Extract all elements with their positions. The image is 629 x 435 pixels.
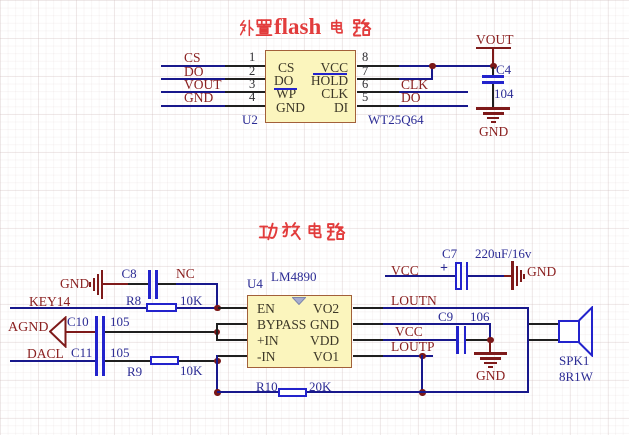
wire C10 to chip <box>105 331 217 333</box>
U4 pin name VO1 <box>290 350 339 364</box>
VCC active-low underline <box>313 73 347 75</box>
pin 8 lead <box>357 65 400 67</box>
net label LOUTP <box>391 340 435 354</box>
net label DO <box>184 65 204 79</box>
pin number 5 <box>362 91 368 104</box>
wire pin8 to VOUT <box>399 65 494 67</box>
net label VCC <box>395 325 423 339</box>
U4 pin name -IN <box>257 350 275 364</box>
net label GND <box>184 91 213 105</box>
C10 value 105 <box>110 315 130 328</box>
wire VOUT net <box>161 91 225 93</box>
capacitor C9 <box>456 326 459 354</box>
AGND triangle <box>49 316 67 348</box>
C10 designator <box>67 315 89 328</box>
net label CLK <box>401 78 428 92</box>
title1 外置flash电路 <box>237 17 239 19</box>
ground symbol (C9) <box>474 352 507 355</box>
GND label (C7) <box>527 265 556 279</box>
AGND lead <box>65 331 95 333</box>
pin number 4 <box>249 91 255 104</box>
VDD pin lead <box>353 339 383 341</box>
R8 value 10K <box>180 294 202 307</box>
title2 功放电路 <box>257 221 259 223</box>
capacitor C10 <box>95 316 98 347</box>
capacitor C7 (polarized) <box>455 262 462 290</box>
net label NC <box>176 267 195 281</box>
R9 value 10K <box>180 364 202 377</box>
wire DO net <box>161 78 225 80</box>
pin number 6 <box>362 78 368 91</box>
pin 4 lead <box>225 105 265 107</box>
speaker bottom wire <box>529 339 558 342</box>
IC U4 body <box>247 295 352 368</box>
pin number 7 <box>362 65 368 78</box>
GND pin lead <box>353 323 383 325</box>
resistor R10 <box>278 388 307 397</box>
U4 notch <box>292 297 306 305</box>
power ground bars (left of C8) <box>89 282 91 287</box>
wire C11 to R9 <box>105 360 151 362</box>
pin 3 lead <box>225 91 265 93</box>
power port VCC (C7 row) <box>391 264 419 278</box>
junction feedback corner <box>214 389 221 396</box>
EN pin lead <box>218 307 247 309</box>
U2 pin name CLK <box>290 87 348 101</box>
R9 designator <box>127 365 142 378</box>
pin number 3 <box>249 78 255 91</box>
C8 designator <box>122 267 137 280</box>
IC U2 body <box>265 50 356 123</box>
pin 2 lead <box>225 78 265 80</box>
U4 pin name +IN <box>257 334 279 348</box>
wire C7 to GND <box>468 275 504 277</box>
speaker SPK1 body <box>558 320 580 343</box>
power ground lead <box>504 275 512 277</box>
net label CS <box>184 51 201 65</box>
U4 pin name VDD <box>290 334 339 348</box>
resistor R8 <box>146 303 177 312</box>
junction EN/NC <box>214 305 221 312</box>
wire CS net <box>161 65 225 67</box>
C7 plus sign <box>440 262 448 275</box>
C4 value 104 <box>494 87 514 100</box>
junction pin7/pin8 <box>429 63 436 70</box>
U2 pin name GND <box>276 101 305 115</box>
junction C9/GND <box>487 337 494 344</box>
designator U2 <box>242 113 258 126</box>
ground symbol (top) <box>476 107 510 110</box>
wire VCC net (VDD) <box>383 339 456 341</box>
power ground bars (right of C7) <box>511 261 514 290</box>
speaker top wire <box>529 323 558 326</box>
SPK1 value 8R1W <box>559 370 593 383</box>
wire VCC to C7 <box>385 275 455 277</box>
wire right riser <box>527 307 529 394</box>
wire R9 to -IN <box>179 360 217 362</box>
BYPASS/+IN tie vertical <box>216 323 218 341</box>
junction C10/BYPASS <box>214 329 221 336</box>
resistor R9 <box>150 356 179 365</box>
value WT25Q64 <box>368 113 424 126</box>
wire pin7 riser <box>431 65 433 80</box>
junction VOUT/C4 <box>490 63 497 70</box>
capacitor C4 <box>482 75 504 78</box>
-IN feedback vertical <box>216 355 218 394</box>
net label LOUTN <box>391 294 437 308</box>
-IN pin lead <box>218 355 247 357</box>
VO2 pin lead <box>353 307 383 309</box>
speaker horn <box>578 306 595 357</box>
capacitor C7 designator <box>442 247 457 260</box>
U4 pin name BYPASS <box>257 318 306 332</box>
capacitor C8 <box>148 270 151 299</box>
SPK1 designator <box>559 354 589 367</box>
C8 right lead <box>158 283 176 285</box>
R8 designator <box>126 294 141 307</box>
U4 pin name GND <box>290 318 339 332</box>
wire DACL <box>10 360 95 362</box>
wire DO net (pin5) <box>399 105 468 107</box>
power port AGND label <box>8 321 48 335</box>
power port VOUT <box>476 33 514 47</box>
capacitor C11 <box>95 346 98 376</box>
pin 5 lead <box>357 105 400 107</box>
VO1 pin lead <box>353 355 383 357</box>
net label KEY14 <box>29 295 70 309</box>
GND label (top) <box>479 125 508 139</box>
wire R8 to EN <box>177 307 217 309</box>
net label DO (pin5) <box>401 91 421 105</box>
U2 pin name DI <box>290 101 348 115</box>
wire NC <box>176 283 218 285</box>
wire LOUTP <box>383 355 433 357</box>
net label VOUT <box>184 78 222 92</box>
+IN pin lead <box>218 339 247 341</box>
R10 value 20K <box>309 380 331 393</box>
LOUTP drop <box>421 355 423 394</box>
capacitor C4 top lead <box>492 67 494 75</box>
wire GND drop <box>489 323 491 340</box>
U2 pin name WP <box>276 87 296 101</box>
U4 pin name VO2 <box>290 302 339 316</box>
U2 pin name VCC <box>290 61 348 75</box>
C9 value 106 <box>470 310 490 323</box>
wire LOUTN <box>383 307 528 309</box>
ground lead (C9) <box>489 341 491 352</box>
junction LOUTP <box>419 353 426 360</box>
C4 bottom lead <box>492 84 494 108</box>
pin number 2 <box>249 65 255 78</box>
pin 6 lead <box>357 91 400 93</box>
C11 value 105 <box>110 346 130 359</box>
wire KEY14 <box>10 307 146 309</box>
VOUT stem <box>492 48 494 66</box>
BYPASS pin lead <box>218 323 247 325</box>
junction R9/-IN <box>214 358 221 365</box>
C9 designator <box>438 310 453 323</box>
power ground GND' (C8 row) label <box>60 277 89 291</box>
wire feedback row (left of R10) <box>217 391 278 393</box>
U2 pin name CS <box>278 61 294 75</box>
pin 7 lead <box>357 78 400 80</box>
value LM4890 <box>271 270 317 283</box>
R10 designator <box>256 380 278 393</box>
wire pin7 horizontal <box>399 78 433 80</box>
GND label (C9) <box>476 369 505 383</box>
C9 right lead <box>466 339 490 341</box>
ground lead to C8 <box>103 283 128 285</box>
net label DACL <box>27 347 64 361</box>
pin number 1 <box>249 51 255 64</box>
designator U4 <box>247 277 263 290</box>
wire GND net <box>161 105 225 107</box>
U2 pin name HOLD <box>290 74 348 88</box>
U4 pin name EN <box>257 302 275 316</box>
C7 value <box>475 247 531 260</box>
wire CLK net <box>399 91 468 93</box>
wire feedback row (right of R10) <box>307 391 528 393</box>
pin 1 lead <box>225 65 265 67</box>
C11 designator <box>71 346 92 359</box>
DO active-low underline <box>274 88 297 90</box>
wire NC drop <box>216 283 218 308</box>
U2 pin name DO <box>274 74 293 88</box>
junction LOUTP/R10 <box>419 389 426 396</box>
C4 designator <box>496 63 511 76</box>
wire GND pin to C9 junction <box>383 323 490 325</box>
VOUT bar <box>476 47 511 50</box>
pin number 8 <box>362 51 368 64</box>
